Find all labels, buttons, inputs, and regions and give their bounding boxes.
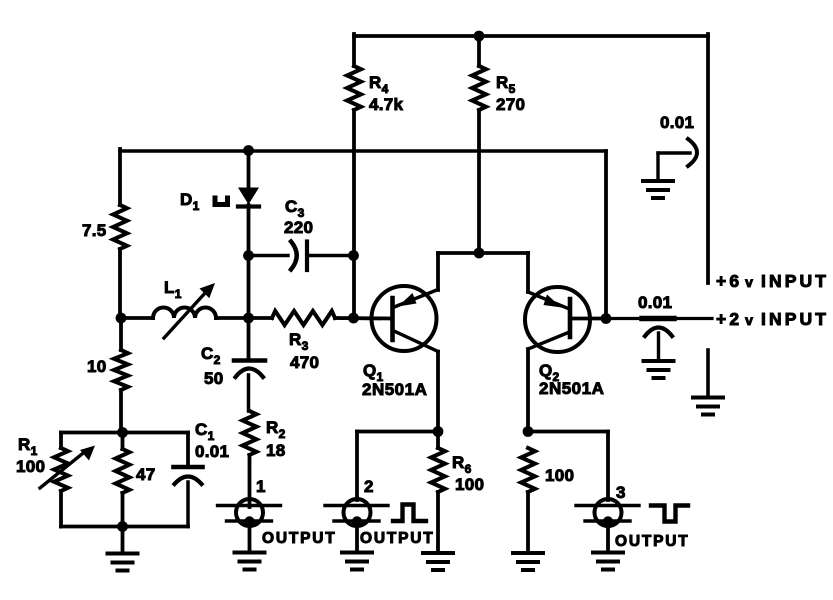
transistor Q2 2N501A — [525, 287, 604, 398]
chassis ground stub (inputs) — [693, 350, 723, 415]
svg-text:L1: L1 — [164, 278, 182, 301]
svg-text:2N501A: 2N501A — [539, 379, 604, 398]
connector jack output 3 — [576, 483, 639, 527]
node C3 left junction — [243, 250, 254, 261]
wire to output 2 — [357, 432, 438, 501]
node +2v / Q2 base junction — [601, 313, 612, 324]
svg-text:470: 470 — [290, 353, 319, 372]
wire R4 branch vertical — [352, 34, 356, 255]
ground under R1 block — [108, 527, 138, 571]
capacitor C2 50 — [201, 318, 265, 411]
resistor 100 (Q2 load) — [521, 448, 574, 553]
node D1/L1 junction — [243, 313, 254, 324]
ground for +2v cap — [644, 361, 674, 378]
svg-text:100: 100 — [545, 466, 574, 485]
svg-text:OUTPUT: OUTPUT — [360, 530, 435, 547]
resistor 7.5 — [82, 205, 127, 249]
node R1 block top — [117, 427, 128, 438]
node left tank node — [116, 313, 127, 324]
inductor L1 (variable) — [153, 278, 216, 338]
svg-text:OUTPUT: OUTPUT — [615, 533, 690, 550]
svg-text:R2: R2 — [266, 418, 286, 441]
capacitor 0.01 bypass at +6v line — [658, 113, 697, 180]
svg-text:10: 10 — [87, 357, 107, 376]
svg-text:7.5: 7.5 — [82, 221, 107, 240]
wire +6v input drop — [706, 34, 710, 283]
wire to output 3 — [528, 432, 608, 501]
node Q2 collector / load junction — [523, 426, 534, 437]
connector jack output 2 — [325, 477, 388, 527]
svg-text:0.01: 0.01 — [638, 293, 672, 312]
svg-text:3: 3 — [616, 483, 626, 502]
node C3 right / R4 line junction — [348, 250, 359, 261]
wire Q2 base lead — [570, 317, 606, 321]
resistor R2 18 — [243, 411, 286, 507]
svg-text:OUTPUT: OUTPUT — [262, 530, 337, 547]
svg-text:D1: D1 — [180, 190, 200, 213]
svg-text:R4: R4 — [369, 73, 389, 96]
resistor R3 470 — [272, 311, 335, 372]
svg-text:R1: R1 — [18, 435, 38, 458]
svg-text:1: 1 — [256, 477, 266, 496]
svg-text:220: 220 — [284, 218, 313, 237]
ground under output 3 — [593, 522, 623, 570]
node top rail / R5 junction — [474, 31, 485, 42]
wire C3 branch — [249, 254, 354, 257]
capacitor 0.01 on +2v line — [638, 293, 674, 360]
capacitor C1 0.01 — [174, 420, 230, 527]
connector jack output 1 — [218, 477, 281, 527]
svg-text:18: 18 — [266, 441, 286, 460]
D1 polarity mark — [215, 198, 228, 205]
resistor R4 — [347, 66, 404, 114]
wire R4 line lower segment — [352, 255, 356, 318]
svg-text:270: 270 — [496, 95, 525, 114]
node R1 block bottom — [117, 521, 128, 532]
transistor Q1 2N501A — [362, 286, 438, 399]
svg-text:R5: R5 — [496, 73, 516, 96]
resistor 10 — [87, 318, 128, 433]
wire Q1 collector drop — [436, 352, 440, 432]
svg-text:0.01: 0.01 — [660, 113, 694, 132]
svg-text:C1: C1 — [195, 420, 215, 443]
wire Q2 collector drop — [526, 349, 530, 432]
node R3 / R4 junction — [348, 313, 359, 324]
svg-text:+6vINPUT: +6vINPUT — [716, 271, 829, 291]
svg-text:50: 50 — [204, 369, 224, 388]
capacitor C3 220 — [284, 197, 313, 270]
wire +2v input line — [606, 317, 712, 320]
wire collector bridge — [438, 253, 528, 292]
ground for +6v bypass cap — [643, 181, 673, 198]
pulse symbol positive — [393, 505, 426, 522]
svg-text:47: 47 — [136, 465, 156, 484]
node D1 top (rail2) — [243, 145, 254, 156]
svg-text:2: 2 — [364, 477, 374, 496]
svg-text:4.7k: 4.7k — [369, 95, 404, 114]
node Q1 collector / R6 junction — [433, 426, 444, 437]
diode D1 branch wire — [247, 149, 251, 318]
node bridge / R5 junction — [474, 248, 485, 259]
ground under output 2 — [342, 522, 372, 570]
svg-text:C3: C3 — [285, 197, 305, 220]
svg-text:R6: R6 — [452, 453, 472, 476]
wire main node line y=318 — [120, 316, 391, 320]
wire top supply rail — [354, 34, 708, 38]
wire R1 block bottom rail — [61, 525, 188, 529]
wire second rail (feedback line) — [120, 149, 606, 318]
svg-text:C2: C2 — [201, 344, 221, 367]
svg-text:2N501A: 2N501A — [362, 380, 427, 399]
wire 7.5 to node line — [118, 249, 122, 318]
svg-text:0.01: 0.01 — [195, 442, 229, 461]
ground under 100 — [513, 553, 543, 570]
pulse symbol negative — [651, 506, 688, 522]
ground under R6 — [423, 553, 453, 570]
variable resistor R1 100 — [16, 435, 95, 527]
resistor R6 100 — [431, 432, 484, 554]
wire R1 block top rail — [61, 433, 188, 468]
svg-text:100: 100 — [16, 457, 45, 476]
svg-text:+2vINPUT: +2vINPUT — [716, 309, 829, 329]
resistor 47 — [116, 433, 156, 527]
ground under output 1 — [235, 522, 265, 570]
svg-text:100: 100 — [455, 475, 484, 494]
diode D1 — [180, 188, 259, 214]
svg-text:R3: R3 — [289, 330, 309, 353]
wire R5 branch vertical — [477, 36, 481, 253]
resistor R5 — [472, 66, 525, 114]
